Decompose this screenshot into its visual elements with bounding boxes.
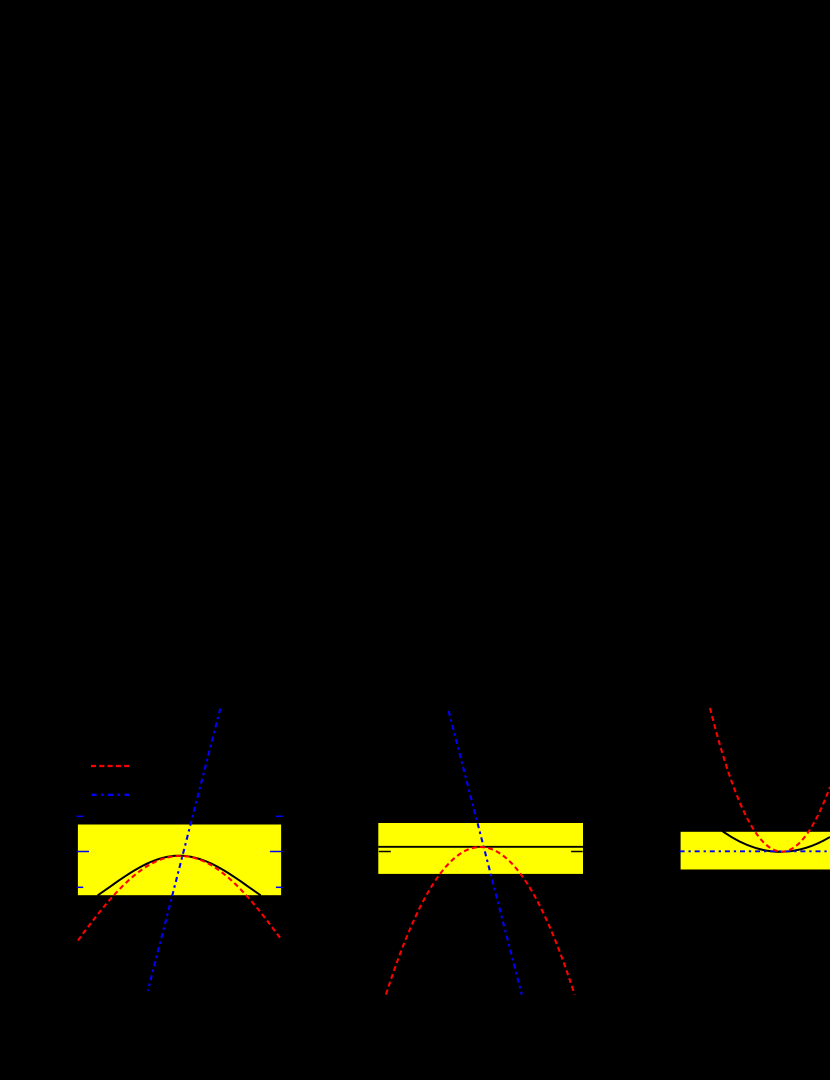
black y-tick left panel 2 xyxy=(379,851,391,853)
blue dash-dot zero-slope line panel 3 xyxy=(680,850,830,852)
black flat action curve panel 2 xyxy=(378,846,583,848)
red dashed quadratic approximation panel 1 xyxy=(78,856,281,941)
blue y-tick left major middle panel 1 xyxy=(77,851,89,853)
yellow band (hbar region) panel 3 xyxy=(681,832,830,870)
blue y-tick right minor bottom panel 1 xyxy=(276,886,283,888)
blue y-tick left minor top panel 1 xyxy=(77,815,84,817)
red dashed quadratic approximation panel 2 xyxy=(386,847,575,995)
yellow band (hbar region) panel 1 xyxy=(78,825,281,896)
red dashed quadratic approximation panel 3 xyxy=(710,708,830,852)
black y-tick right panel 2 xyxy=(571,851,583,853)
blue y-tick right major middle panel 1 xyxy=(270,851,283,853)
legend blue dash-dot sample xyxy=(92,794,130,796)
blue y-tick left minor bottom panel 1 xyxy=(77,886,84,888)
black true-action curve S(x) panel 1 xyxy=(98,856,261,896)
blue dash-dot linear-term line panel 1 xyxy=(148,709,221,991)
black shallow action curve panel 3 xyxy=(700,812,830,852)
blue dash-dot linear-term line panel 2 xyxy=(449,711,522,995)
yellow band (hbar region) panel 2 xyxy=(378,823,583,874)
blue y-tick right minor top panel 1 xyxy=(276,815,283,817)
legend red dashed sample xyxy=(91,765,129,767)
